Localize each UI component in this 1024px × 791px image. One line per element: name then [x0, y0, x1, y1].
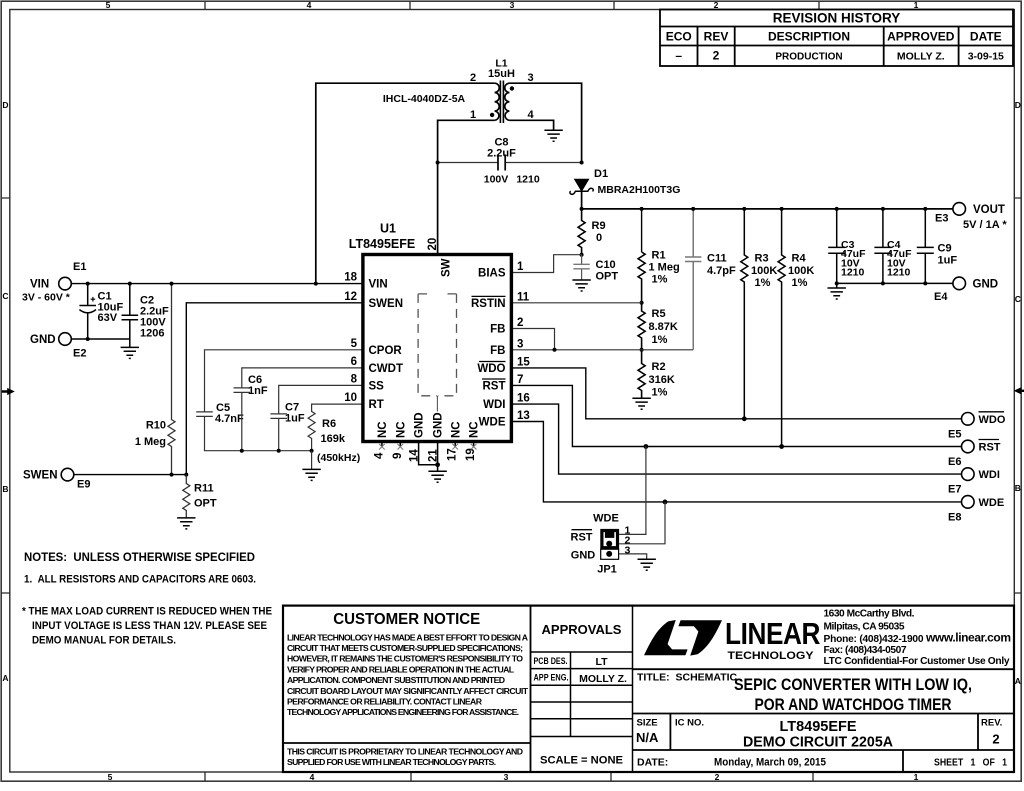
wire FB pin2 jog [511, 329, 554, 350]
revision history table frame [660, 10, 1013, 67]
svg-text:100V: 100V [484, 173, 509, 185]
svg-text:U1: U1 [380, 222, 396, 236]
svg-text:HOWEVER, IT REMAINS THE CUSTOM: HOWEVER, IT REMAINS THE CUSTOMER'S RESPO… [287, 654, 523, 664]
wire E2 gnd row [71, 338, 130, 340]
svg-text:GND: GND [571, 550, 596, 562]
svg-text:NC: NC [395, 421, 407, 438]
resistor R2 [638, 350, 645, 398]
svg-text:E2: E2 [73, 348, 86, 360]
VIN rail E1 to U1 pin 18 [71, 283, 363, 285]
svg-text:www.linear.com: www.linear.com [925, 630, 1011, 644]
svg-text:SUPPLIED FOR USE WITH LINEAR T: SUPPLIED FOR USE WITH LINEAR TECHNOLOGY … [287, 757, 496, 767]
svg-text:3: 3 [510, 0, 515, 10]
U1 right pin numbers [517, 261, 530, 422]
svg-text:0: 0 [596, 232, 602, 244]
svg-text:E8: E8 [948, 511, 961, 523]
CPOR net with capacitor C5 [196, 350, 363, 451]
svg-text:R11: R11 [194, 483, 214, 495]
svg-text:1: 1 [470, 109, 476, 121]
bottom zone ticks [205, 772, 813, 781]
svg-text:APPROVED: APPROVED [887, 30, 955, 44]
svg-text:DEMO CIRCUIT 2205A: DEMO CIRCUIT 2205A [743, 735, 894, 751]
svg-text:2: 2 [470, 72, 476, 84]
svg-text:2: 2 [992, 732, 999, 747]
wire C8 node down to U1 SW pin 20 [437, 163, 439, 255]
svg-text:FB: FB [490, 345, 505, 357]
wire WDI net pin 16 to E7 [511, 404, 961, 474]
svg-text:4.7pF: 4.7pF [707, 265, 736, 277]
svg-text:2: 2 [714, 0, 719, 10]
svg-text:E6: E6 [948, 456, 961, 468]
svg-text:1206: 1206 [140, 327, 164, 339]
svg-text:OPT: OPT [596, 271, 619, 283]
svg-text:DATE: DATE [970, 30, 1002, 44]
svg-text:4: 4 [310, 772, 315, 782]
svg-text:4: 4 [373, 452, 385, 459]
svg-text:5: 5 [108, 772, 113, 782]
wire L1 pin 3 to diode branch [509, 83, 581, 162]
svg-text:RST: RST [571, 531, 593, 543]
capacitor C4 [874, 209, 891, 284]
svg-text:Fax: (408)434-0507: Fax: (408)434-0507 [824, 645, 907, 656]
svg-text:15: 15 [517, 356, 530, 368]
svg-text:MOLLY Z.: MOLLY Z. [897, 51, 945, 63]
svg-text:DATE:: DATE: [637, 757, 668, 769]
resistor R10 from VIN rail [168, 284, 175, 475]
ground at L1 pin 4 [544, 130, 562, 141]
svg-text:WDI: WDI [979, 469, 1000, 481]
svg-text:3: 3 [625, 545, 631, 557]
svg-text:WDE: WDE [979, 497, 1005, 509]
svg-text:APPLICATION. COMPONENT SUBSTI: APPLICATION. COMPONENT SUBSTITUTION AND … [287, 675, 505, 685]
svg-text:PRODUCTION: PRODUCTION [775, 52, 842, 63]
svg-text:WDO: WDO [979, 414, 1006, 426]
capacitor C9 [917, 209, 934, 284]
svg-text:GND: GND [433, 412, 445, 438]
svg-text:CIRCUIT BOARD LAYOUT MAY SIGNI: CIRCUIT BOARD LAYOUT MAY SIGNIFICANTLY A… [287, 686, 529, 696]
svg-text:D1: D1 [594, 168, 608, 180]
svg-text:R1: R1 [652, 249, 666, 261]
svg-text:THIS CIRCUIT IS PROPRIETARY TO: THIS CIRCUIT IS PROPRIETARY TO LINEAR TE… [287, 747, 523, 757]
svg-text:SW: SW [441, 258, 453, 277]
jumper JP1 body [601, 531, 619, 560]
svg-text:20: 20 [427, 238, 439, 251]
capacitor C11 [692, 209, 694, 350]
junction node C8 left [436, 161, 440, 165]
wire top loop from VIN node to L1 pin 2 [316, 83, 495, 283]
svg-text:REV.: REV. [981, 718, 1002, 729]
svg-text:E3: E3 [935, 213, 948, 225]
svg-text:VERIFY PROPER AND RELIABLE OPE: VERIFY PROPER AND RELIABLE OPERATION IN … [287, 664, 515, 674]
L1 phase dot left [490, 113, 494, 117]
svg-text:1. ALL RESISTORS AND CAPACITO: 1. ALL RESISTORS AND CAPACITORS ARE 0603… [24, 573, 256, 585]
svg-text:C11: C11 [707, 252, 727, 264]
svg-text:Milpitas, CA 95035: Milpitas, CA 95035 [824, 622, 905, 633]
wire L1 pin 4 to ground [509, 120, 553, 130]
terminal E5 WDO [962, 413, 975, 426]
svg-text:3: 3 [517, 338, 523, 350]
svg-text:BIAS: BIAS [478, 268, 506, 280]
junction node C8 right [580, 161, 584, 165]
zone labels right [1015, 100, 1021, 686]
svg-text:E1: E1 [73, 261, 86, 273]
junction nodes on gnd bus [835, 281, 839, 285]
svg-text:REVISION HISTORY: REVISION HISTORY [773, 11, 901, 26]
svg-text:IHCL-4040DZ-5A: IHCL-4040DZ-5A [383, 93, 466, 105]
svg-text:1: 1 [914, 772, 919, 782]
svg-text:B: B [2, 484, 8, 494]
title row borders [633, 669, 1015, 772]
wire rail to R1 [641, 209, 643, 252]
ground at U1 [428, 471, 446, 482]
svg-text:1210: 1210 [887, 267, 911, 279]
svg-text:1 Meg: 1 Meg [135, 436, 166, 448]
svg-text:9: 9 [392, 453, 404, 459]
U1 left pin names [369, 279, 404, 412]
ground at JP1 [638, 559, 656, 570]
svg-text:R10: R10 [146, 420, 166, 432]
svg-text:* THE MAX LOAD CURRENT IS REDU: * THE MAX LOAD CURRENT IS REDUCED WHEN T… [22, 605, 272, 617]
svg-text:R9: R9 [592, 220, 606, 232]
wire WDE net pin 13 to E8 [511, 422, 961, 502]
svg-text:R2: R2 [652, 361, 666, 373]
approvals cell borders [531, 606, 633, 772]
svg-text:19: 19 [465, 448, 477, 461]
U1 exposed pad dashed box [418, 294, 456, 396]
capacitor C8 [498, 155, 505, 171]
svg-text:6: 6 [351, 356, 357, 368]
svg-text:POR AND WATCHDOG TIMER: POR AND WATCHDOG TIMER [755, 696, 952, 714]
junction node top loop at VIN rail [314, 282, 318, 286]
svg-text:SCALE = NONE: SCALE = NONE [540, 755, 623, 767]
capacitor C10 [581, 255, 583, 280]
svg-text:1: 1 [517, 261, 524, 273]
L1 core lines [500, 81, 503, 124]
svg-text:1%: 1% [652, 273, 668, 285]
svg-text:8: 8 [351, 373, 358, 385]
svg-text:1uF: 1uF [938, 254, 958, 266]
top zone ticks [205, 1, 819, 9]
svg-text:LTC Confidential-For Customer: LTC Confidential-For Customer Use Only [824, 656, 1010, 667]
svg-text:12: 12 [344, 291, 357, 303]
left zone ticks [1, 198, 10, 593]
svg-text:TECHNOLOGY APPLICATIONS ENGINE: TECHNOLOGY APPLICATIONS ENGINEERING FOR … [287, 707, 519, 717]
svg-text:R4: R4 [792, 252, 807, 264]
GND bus to E4 [837, 282, 953, 284]
svg-text:APP ENG.: APP ENG. [534, 673, 569, 683]
L1 labels [383, 58, 535, 122]
svg-text:1nF: 1nF [248, 385, 268, 397]
title block outer frame [283, 606, 1014, 772]
svg-text:5: 5 [351, 338, 358, 350]
svg-text:SHEET 1 OF 1: SHEET 1 OF 1 [934, 757, 1007, 769]
svg-text:–: – [675, 49, 682, 63]
ground at C2 [129, 339, 131, 347]
SS net with capacitor C7 [270, 385, 363, 450]
svg-text:D: D [2, 100, 8, 110]
svg-text:1: 1 [914, 0, 919, 10]
svg-text:JP1: JP1 [597, 563, 617, 575]
svg-text:TITLE: SCHEMATIC: TITLE: SCHEMATIC [637, 672, 738, 684]
terminal E2 GND [59, 333, 72, 346]
svg-text:RSTIN: RSTIN [471, 298, 506, 310]
junction node R9/C10/BIAS [580, 253, 584, 257]
svg-text:WDO: WDO [477, 363, 505, 375]
svg-text:16: 16 [517, 393, 530, 405]
svg-text:4: 4 [307, 0, 312, 10]
customer notice cell borders [283, 606, 531, 772]
terminal E3 VOUT [953, 203, 966, 216]
resistor R5 [638, 303, 645, 350]
svg-text:RST: RST [483, 380, 506, 392]
svg-text:PCB DES.: PCB DES. [534, 656, 568, 666]
svg-text:IC NO.: IC NO. [675, 718, 704, 729]
svg-text:CIRCUIT THAT MEETS CUSTOMER-SU: CIRCUIT THAT MEETS CUSTOMER-SUPPLIED SPE… [287, 643, 523, 653]
svg-text:63V: 63V [98, 312, 118, 324]
svg-text:17: 17 [447, 448, 459, 461]
ground at R11 [177, 518, 195, 529]
SWEN wire to U1 pin 12 [74, 303, 363, 475]
junction node rail at D1 [580, 207, 584, 211]
svg-text:1210: 1210 [841, 267, 865, 279]
svg-text:GND: GND [973, 278, 999, 290]
svg-text:MBRA2H100T3G: MBRA2H100T3G [598, 184, 681, 196]
svg-text:1uF: 1uF [285, 413, 305, 425]
svg-text:100K: 100K [788, 265, 814, 277]
zone labels left [2, 100, 8, 683]
svg-text:RT: RT [369, 399, 384, 411]
svg-text:RST: RST [979, 442, 1001, 454]
svg-text:3: 3 [527, 72, 533, 84]
U1 left pin numbers [344, 272, 357, 405]
op-amp U1 LT8495EFE body [363, 255, 512, 442]
resistor R4 with leads [778, 209, 785, 447]
svg-text:SIZE: SIZE [637, 718, 658, 729]
svg-text:1%: 1% [652, 386, 668, 398]
junction node FB join [553, 348, 557, 352]
svg-text:3-09-15: 3-09-15 [968, 51, 1004, 63]
right zone ticks [1014, 198, 1021, 593]
svg-text:1 Meg: 1 Meg [649, 261, 680, 273]
svg-text:11: 11 [517, 291, 530, 303]
svg-text:LINEAR TECHNOLOGY HAS MADE A B: LINEAR TECHNOLOGY HAS MADE A BEST EFFORT… [287, 632, 529, 642]
RT net with resistor R6 [308, 404, 363, 451]
svg-text:CWDT: CWDT [369, 363, 404, 375]
svg-text:OPT: OPT [194, 498, 217, 510]
svg-text:WDI: WDI [483, 399, 505, 411]
svg-text:18: 18 [344, 272, 357, 284]
svg-text:E4: E4 [934, 291, 948, 303]
capacitor C3 [828, 209, 845, 284]
svg-text:4.7nF: 4.7nF [215, 413, 244, 425]
wire GND pins 14 and 21 to ground [419, 442, 438, 472]
svg-text:VOUT: VOUT [973, 204, 1005, 216]
terminal E1 VIN [59, 277, 72, 290]
svg-text:LINEAR: LINEAR [725, 616, 820, 651]
wire WDO net pin 15 to E5 [511, 368, 961, 419]
wire BIAS to R9 node [511, 255, 581, 273]
svg-text:C10: C10 [596, 259, 616, 271]
svg-text:CUSTOMER NOTICE: CUSTOMER NOTICE [333, 611, 480, 628]
svg-text:2.2uF: 2.2uF [487, 148, 516, 160]
svg-text:3: 3 [504, 772, 509, 782]
svg-text:NC: NC [469, 421, 481, 438]
svg-text:1%: 1% [755, 277, 771, 289]
ground at R6 bus [311, 451, 313, 470]
svg-text:WDE: WDE [593, 512, 619, 524]
svg-text:R5: R5 [652, 308, 666, 320]
svg-text:5: 5 [106, 0, 111, 10]
resistor R3 with leads [741, 209, 748, 419]
ground at R2 [632, 398, 650, 409]
CWDT net with capacitor C6 [234, 368, 363, 451]
resistor R9 [578, 209, 585, 255]
diode D1 [570, 179, 593, 209]
address block [824, 609, 1012, 668]
wire C8 left lead [438, 162, 498, 164]
wire FB pin3 net [511, 349, 693, 351]
svg-text:3V - 60V *: 3V - 60V * [22, 291, 71, 303]
svg-text:13: 13 [517, 410, 530, 422]
resistor R1 [638, 252, 645, 303]
svg-text:SEPIC CONVERTER WITH LOW IQ,: SEPIC CONVERTER WITH LOW IQ, [734, 676, 972, 694]
svg-text:(450kHz): (450kHz) [317, 452, 360, 464]
terminal E9 SWEN [61, 468, 74, 481]
svg-text:R3: R3 [755, 252, 769, 264]
svg-text:15uH: 15uH [488, 68, 515, 80]
svg-text:FB: FB [490, 324, 505, 336]
svg-text:CPOR: CPOR [369, 345, 403, 357]
svg-text:169k: 169k [321, 433, 346, 445]
jumper JP1 wires [619, 447, 646, 535]
svg-text:2: 2 [517, 317, 523, 329]
svg-text:APPROVALS: APPROVALS [542, 622, 622, 637]
svg-text:1%: 1% [792, 277, 808, 289]
svg-text:GND: GND [414, 412, 426, 438]
NC x marks [379, 444, 476, 450]
svg-text:C9: C9 [938, 242, 952, 254]
junction node rail R1 [640, 207, 644, 211]
svg-text:R6: R6 [322, 418, 336, 430]
svg-text:1%: 1% [652, 334, 668, 346]
LT logo mark [644, 620, 688, 655]
wire C8 right lead [505, 162, 581, 164]
capacitor C2 [122, 284, 139, 339]
svg-text:SS: SS [369, 380, 385, 392]
svg-text:B: B [1015, 483, 1021, 493]
svg-text:8.87K: 8.87K [649, 321, 678, 333]
U1 bottom pin stubs [382, 442, 474, 447]
svg-text:NC: NC [450, 421, 462, 438]
ground at C10 [572, 280, 590, 291]
svg-text:A: A [1015, 676, 1021, 686]
svg-text:DESCRIPTION: DESCRIPTION [768, 30, 850, 44]
inductor L1 left winding [495, 83, 500, 120]
svg-text:TECHNOLOGY: TECHNOLOGY [728, 650, 814, 662]
svg-text:316K: 316K [649, 374, 675, 386]
svg-text:LT: LT [595, 656, 608, 668]
svg-text:C: C [2, 291, 8, 301]
svg-text:NC: NC [377, 421, 389, 438]
U1 bottom pin names rotated [377, 412, 481, 438]
svg-text:SWEN: SWEN [369, 298, 404, 310]
svg-text:VIN: VIN [30, 279, 49, 291]
svg-text:2: 2 [715, 772, 720, 782]
VOUT rail [582, 208, 953, 210]
svg-text:C: C [1015, 294, 1021, 304]
svg-text:DEMO MANUAL FOR DETAILS.: DEMO MANUAL FOR DETAILS. [32, 634, 176, 646]
svg-text:VIN: VIN [369, 279, 388, 291]
resistor R11 [183, 475, 190, 518]
junction node rail C11 [691, 207, 695, 211]
inductor L1 right winding [505, 83, 510, 120]
terminal E6 RST [962, 440, 975, 453]
wire RSTIN net [511, 302, 641, 304]
terminal E4 GND [953, 277, 966, 290]
svg-text:PERFORMANCE OR RELIABILITY. C: PERFORMANCE OR RELIABILITY. CONTACT LINE… [287, 697, 483, 707]
U1 pin name overlines [472, 296, 506, 379]
capacitor C1 polarized [79, 284, 96, 339]
svg-text:WDE: WDE [479, 417, 506, 429]
svg-text:E9: E9 [77, 479, 90, 491]
svg-text:ECO: ECO [666, 30, 692, 44]
wire L1 pin 1 to C8 node [438, 120, 495, 162]
svg-text:1630 McCarthy Blvd.: 1630 McCarthy Blvd. [824, 609, 915, 620]
svg-text:MOLLY Z.: MOLLY Z. [579, 673, 627, 685]
svg-text:100K: 100K [751, 265, 777, 277]
U1 right pin names [471, 268, 506, 429]
junction node R5/R2/FB [640, 348, 644, 352]
terminal E8 WDE [962, 496, 975, 509]
ground at C3 [836, 283, 838, 288]
svg-text:1210: 1210 [516, 173, 540, 185]
svg-text:5V / 1A *: 5V / 1A * [963, 219, 1007, 231]
svg-text:4: 4 [527, 109, 534, 121]
svg-text:INPUT VOLTAGE IS LESS THAN 12V: INPUT VOLTAGE IS LESS THAN 12V. PLEASE S… [32, 620, 267, 632]
customer notice body text [287, 632, 529, 767]
junction node R1/R5/RSTIN [640, 301, 644, 305]
svg-text:10: 10 [344, 392, 357, 404]
zone labels bottom [108, 772, 919, 782]
U1 bottom pin numbers rotated [373, 448, 477, 462]
svg-text:Monday, March 09, 2015: Monday, March 09, 2015 [714, 757, 826, 769]
svg-text:7: 7 [517, 374, 523, 386]
left border arrow [2, 388, 15, 395]
svg-text:LT8495EFE: LT8495EFE [349, 237, 415, 251]
svg-text:D: D [1015, 100, 1021, 110]
svg-text:LT8495EFE: LT8495EFE [779, 719, 856, 735]
svg-text:REV: REV [704, 30, 729, 44]
svg-text:Phone: (408)432-1900: Phone: (408)432-1900 [824, 634, 924, 645]
svg-text:SWEN: SWEN [23, 470, 58, 482]
svg-text:E5: E5 [948, 428, 961, 440]
zone labels top [106, 0, 919, 10]
svg-text:E7: E7 [948, 484, 961, 496]
wire RST net pin 7 to E6 [511, 385, 961, 446]
L1 phase dot right [510, 86, 514, 90]
svg-text:A: A [2, 673, 8, 683]
svg-text:N/A: N/A [636, 730, 659, 745]
right border arrow [1014, 387, 1024, 394]
svg-text:GND: GND [30, 334, 56, 346]
terminal E7 WDI [962, 468, 975, 481]
svg-text:2: 2 [713, 49, 720, 63]
svg-text:NOTES: UNLESS OTHERWISE SPECI: NOTES: UNLESS OTHERWISE SPECIFIED [24, 550, 255, 564]
